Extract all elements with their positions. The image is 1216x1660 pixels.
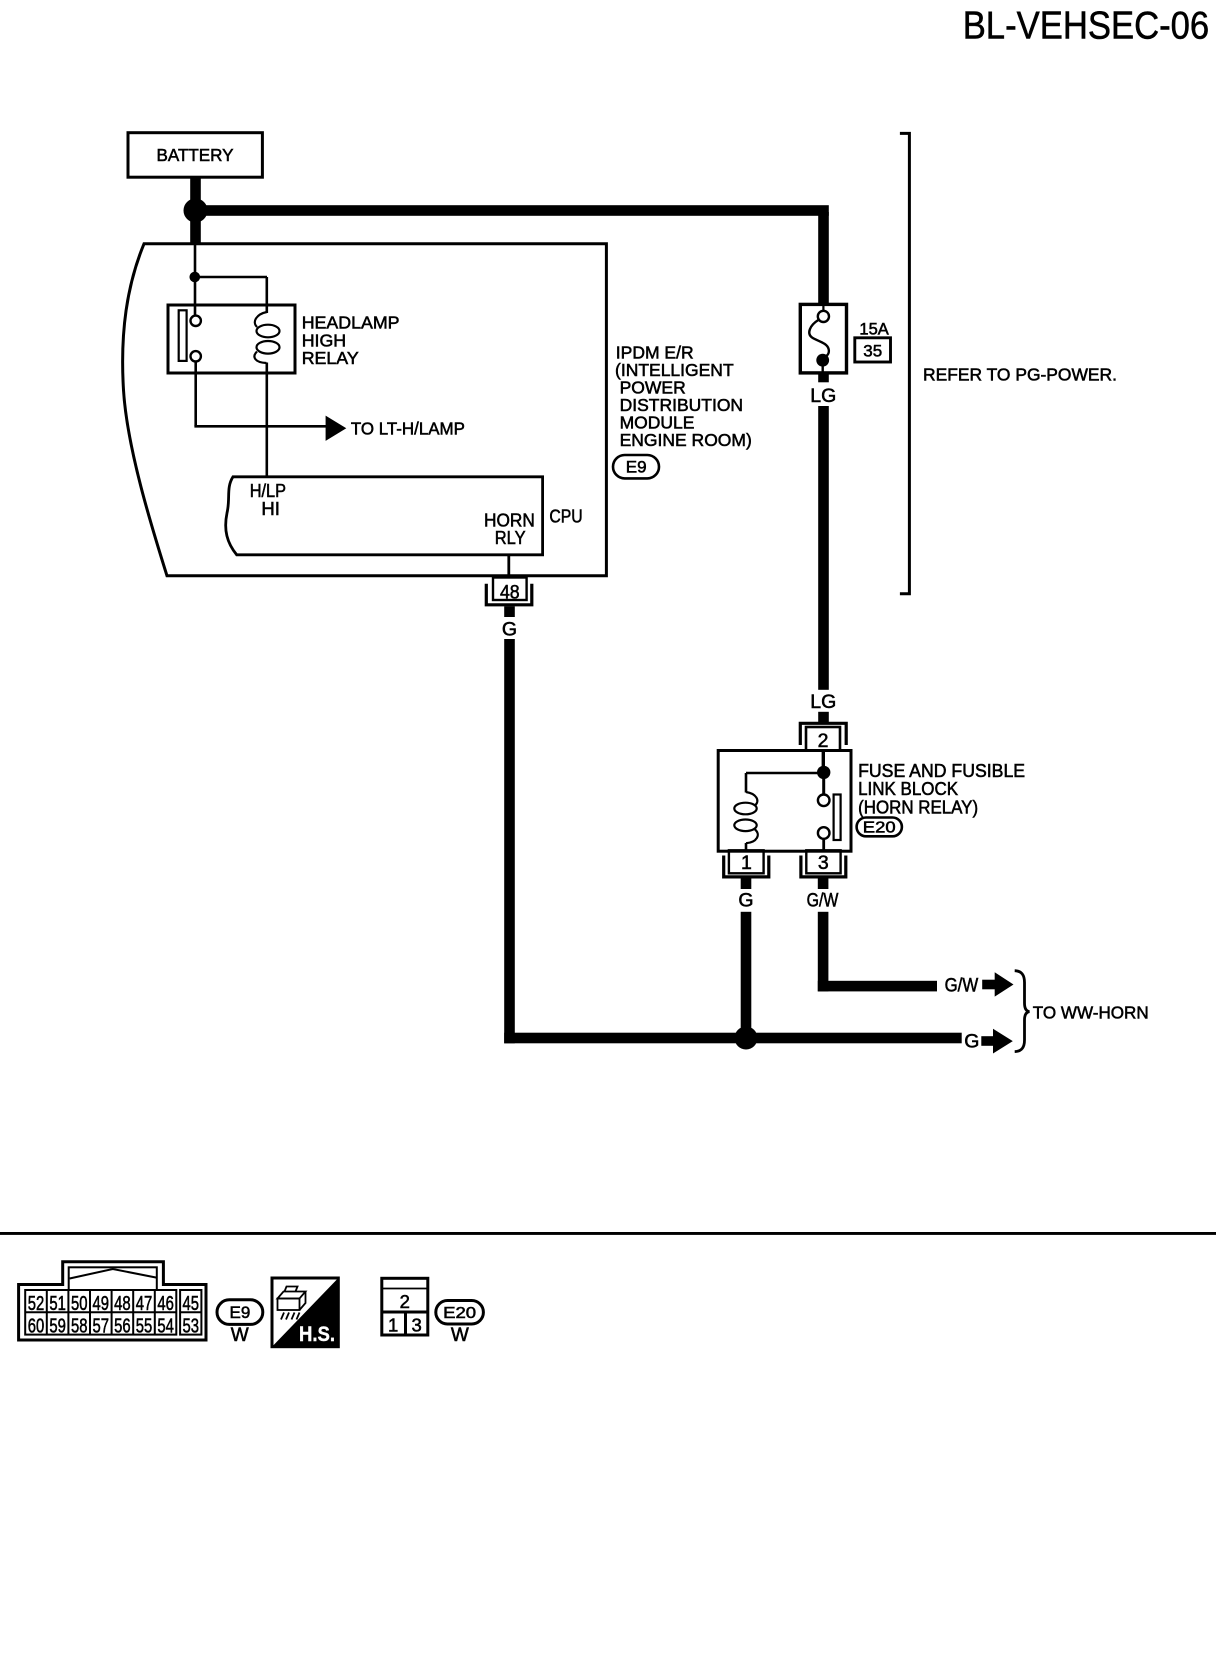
svg-text:47: 47 <box>136 1293 153 1315</box>
svg-text:57: 57 <box>93 1315 110 1337</box>
svg-text:3: 3 <box>411 1315 421 1336</box>
svg-text:ENGINE ROOM): ENGINE ROOM) <box>620 430 752 450</box>
svg-text:48: 48 <box>500 582 520 604</box>
svg-text:2: 2 <box>818 730 829 752</box>
svg-text:52: 52 <box>28 1293 45 1315</box>
svg-text:58: 58 <box>71 1315 88 1337</box>
svg-text:LG: LG <box>810 385 836 407</box>
svg-text:60: 60 <box>28 1315 45 1337</box>
svg-text:E20: E20 <box>863 820 896 837</box>
svg-text:HI: HI <box>261 498 280 519</box>
svg-text:E9: E9 <box>230 1303 251 1322</box>
svg-text:W: W <box>231 1325 249 1346</box>
svg-text:49: 49 <box>93 1293 110 1315</box>
svg-text:TO WW-HORN: TO WW-HORN <box>1033 1002 1149 1022</box>
svg-text:15A: 15A <box>859 320 888 338</box>
svg-text:G: G <box>502 619 517 641</box>
svg-text:54: 54 <box>157 1315 174 1337</box>
svg-text:1: 1 <box>388 1315 398 1336</box>
svg-text:53: 53 <box>183 1315 200 1337</box>
svg-text:BL-VEHSEC-06: BL-VEHSEC-06 <box>963 5 1209 48</box>
svg-text:48: 48 <box>114 1293 131 1315</box>
svg-text:TO LT-H/LAMP: TO LT-H/LAMP <box>351 418 465 438</box>
svg-text:55: 55 <box>136 1315 153 1337</box>
svg-text:E20: E20 <box>443 1305 476 1322</box>
svg-text:E9: E9 <box>626 458 647 477</box>
svg-text:LG: LG <box>810 691 836 713</box>
svg-text:LINK BLOCK: LINK BLOCK <box>858 779 958 799</box>
svg-text:G: G <box>738 890 753 912</box>
svg-text:50: 50 <box>71 1293 88 1315</box>
svg-text:FUSE AND FUSIBLE: FUSE AND FUSIBLE <box>858 761 1025 781</box>
svg-text:56: 56 <box>114 1315 131 1337</box>
svg-text:RLY: RLY <box>495 527 526 548</box>
svg-text:G: G <box>964 1031 979 1053</box>
svg-text:W: W <box>451 1325 469 1346</box>
svg-text:BATTERY: BATTERY <box>157 145 234 165</box>
svg-text:46: 46 <box>157 1293 174 1315</box>
svg-text:REFER TO PG-POWER.: REFER TO PG-POWER. <box>923 365 1117 385</box>
svg-text:CPU: CPU <box>549 506 582 527</box>
svg-text:(HORN RELAY): (HORN RELAY) <box>858 798 978 818</box>
svg-text:2: 2 <box>400 1291 410 1312</box>
svg-text:G/W: G/W <box>807 890 839 912</box>
svg-text:G/W: G/W <box>945 974 979 996</box>
svg-text:45: 45 <box>183 1293 200 1315</box>
svg-text:HEADLAMP: HEADLAMP <box>302 313 400 333</box>
svg-text:51: 51 <box>49 1293 66 1315</box>
svg-text:35: 35 <box>863 341 882 360</box>
svg-text:H.S.: H.S. <box>299 1322 335 1346</box>
svg-text:59: 59 <box>49 1315 66 1337</box>
svg-text:3: 3 <box>818 852 829 874</box>
svg-text:1: 1 <box>741 852 752 874</box>
svg-text:RELAY: RELAY <box>302 348 359 368</box>
